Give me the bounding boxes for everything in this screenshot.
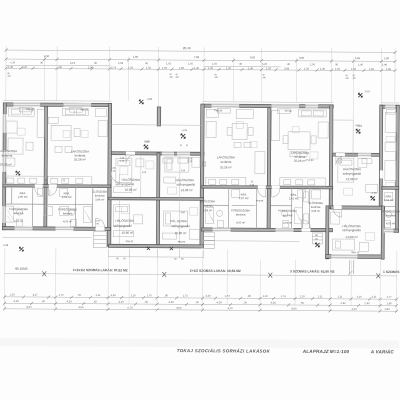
svg-text:1,45: 1,45 bbox=[358, 62, 364, 66]
level mark top mid court bbox=[139, 98, 152, 104]
svg-text:1,20: 1,20 bbox=[202, 162, 207, 164]
svg-text:25,26 m²: 25,26 m² bbox=[220, 165, 232, 169]
svg-text:1,20: 1,20 bbox=[120, 158, 125, 160]
KRA/bath partition A2 bbox=[75, 186, 77, 228]
entry door block B unit3 bbox=[302, 228, 311, 232]
svg-text:4,28: 4,28 bbox=[217, 300, 223, 304]
svg-text:12,98 m²: 12,98 m² bbox=[181, 188, 193, 192]
entry door right court bbox=[336, 153, 345, 156]
svg-text:3,96 m²: 3,96 m² bbox=[203, 208, 212, 212]
svg-text:2,10: 2,10 bbox=[188, 161, 193, 163]
dimension tick slashes top bbox=[4, 49, 396, 72]
svg-text:28,49: 28,49 bbox=[183, 46, 191, 50]
svg-text:szőnyegpadló: szőnyegpadló bbox=[113, 224, 132, 228]
svg-text:25,26 m²: 25,26 m² bbox=[74, 157, 86, 161]
svg-text:1,02: 1,02 bbox=[166, 61, 172, 65]
right wing bedroom furniture bbox=[338, 158, 378, 192]
svg-text:1,40: 1,40 bbox=[248, 66, 254, 70]
svg-text:1,75: 1,75 bbox=[59, 293, 65, 297]
door protrusion bedroom bbox=[334, 206, 342, 209]
svg-text:2,10: 2,10 bbox=[131, 293, 137, 297]
lintel labels above plan bbox=[7, 73, 356, 80]
svg-text:8,06: 8,06 bbox=[176, 306, 182, 310]
svg-text:szőnyegpadló: szőnyegpadló bbox=[171, 224, 190, 228]
bottom wall unit C bbox=[382, 229, 399, 232]
svg-text:kerámia: kerámia bbox=[203, 204, 213, 208]
svg-text:Plan 80: Plan 80 bbox=[80, 109, 89, 111]
bottom wall block A bbox=[3, 227, 111, 231]
bedroom wing split / protrusion top wall bbox=[331, 206, 385, 210]
svg-text:szőnyegpadló: szőnyegpadló bbox=[343, 172, 362, 176]
hall partition B unit3 bbox=[291, 188, 293, 230]
svg-text:4,27: 4,27 bbox=[33, 293, 39, 297]
svg-text:,50: ,50 bbox=[243, 300, 247, 304]
svg-text:2,90 m2: 2,90 m2 bbox=[18, 195, 28, 199]
bottom wall block B bbox=[202, 228, 333, 232]
area chain line bbox=[4, 274, 397, 276]
svg-text:2,11: 2,11 bbox=[372, 295, 377, 299]
svg-text:1,50: 1,50 bbox=[10, 292, 16, 296]
svg-text:4,20: 4,20 bbox=[206, 294, 212, 298]
svg-text:1,90: 1,90 bbox=[382, 63, 388, 67]
svg-text:kerámia: kerámia bbox=[236, 212, 246, 216]
svg-text:8,06: 8,06 bbox=[291, 306, 297, 310]
svg-text:LAKÓSZOBA: LAKÓSZOBA bbox=[217, 154, 235, 159]
svg-text:2,61 m2: 2,61 m2 bbox=[384, 198, 394, 202]
mid/B party wall bbox=[200, 104, 204, 247]
svg-text:R: R bbox=[186, 144, 188, 147]
court right wall upper stub bbox=[157, 107, 161, 126]
svg-text:1,40: 1,40 bbox=[320, 67, 326, 71]
svg-text:2,10: 2,10 bbox=[357, 295, 363, 299]
bath/KRA fixtures B bbox=[206, 189, 321, 228]
svg-text:2,10: 2,10 bbox=[338, 162, 343, 164]
svg-text:kerámia: kerámia bbox=[95, 194, 105, 198]
svg-text:4,29: 4,29 bbox=[14, 299, 20, 303]
svg-text:kerámia: kerámia bbox=[283, 213, 293, 217]
svg-text:4,00 m²: 4,00 m² bbox=[14, 219, 23, 223]
svg-text:HÁLÓSZOBA: HÁLÓSZOBA bbox=[122, 177, 140, 182]
level mark bottom left bbox=[19, 247, 23, 251]
svg-text:PMI 95: PMI 95 bbox=[126, 241, 134, 243]
svg-text:-0,01: -0,01 bbox=[364, 90, 370, 93]
entry steps block A bbox=[93, 232, 106, 248]
interior door A2 bbox=[49, 184, 57, 187]
hall partition A2 bbox=[92, 187, 94, 229]
svg-text:-0,39: -0,39 bbox=[144, 140, 150, 143]
svg-text:2,92: 2,92 bbox=[341, 301, 347, 305]
svg-text:3,90: 3,90 bbox=[111, 293, 117, 297]
svg-text:-4,03: -4,03 bbox=[181, 129, 187, 132]
door mid wing bedroom1 bbox=[111, 171, 115, 179]
svg-text:A VARIÁC: A VARIÁC bbox=[370, 348, 395, 354]
svg-text:1,80: 1,80 bbox=[386, 67, 392, 71]
svg-text:PHI 90: PHI 90 bbox=[306, 160, 314, 162]
svg-text:szőnyegpadló: szőnyegpadló bbox=[116, 182, 135, 186]
svg-text:1,80: 1,80 bbox=[179, 66, 185, 70]
interior door A1 living->hall bbox=[35, 184, 43, 187]
svg-text:2,08: 2,08 bbox=[118, 61, 124, 65]
svg-text:KRA.: KRA. bbox=[241, 192, 248, 196]
top wall block A bbox=[3, 103, 111, 107]
svg-text:8,30: 8,30 bbox=[44, 54, 50, 58]
svg-text:1,40: 1,40 bbox=[8, 65, 14, 69]
bottom dimension ticks bbox=[3, 295, 398, 312]
level mark B court bbox=[356, 125, 363, 134]
svg-text:PHI 90: PHI 90 bbox=[285, 111, 293, 113]
svg-text:szőnyegpadló: szőnyegpadló bbox=[177, 182, 196, 186]
svg-text:kerámia: kerámia bbox=[2, 154, 13, 158]
svg-text:+,26: +,26 bbox=[10, 60, 16, 64]
interior door B2 bbox=[272, 186, 280, 189]
entry steps unit3 bbox=[312, 233, 322, 244]
svg-text:1,50: 1,50 bbox=[226, 66, 232, 70]
svg-text:TOKAJ SZOCIÁLIS SORHÁZI LAKÁSO: TOKAJ SZOCIÁLIS SORHÁZI LAKÁSOK bbox=[177, 348, 271, 354]
svg-text:2,11: 2,11 bbox=[96, 293, 101, 297]
svg-text:48,10M2: 48,10M2 bbox=[15, 267, 28, 271]
svg-text:2,73: 2,73 bbox=[111, 65, 117, 69]
svg-text:HÁLÓSZOBA: HÁLÓSZOBA bbox=[176, 177, 194, 182]
svg-text:kerámia: kerámia bbox=[14, 211, 24, 215]
bedroom mid wing upper-left bed bbox=[114, 159, 144, 193]
level mark left court bbox=[144, 140, 151, 149]
svg-text:3,65: 3,65 bbox=[355, 56, 361, 60]
svg-text:1,20: 1,20 bbox=[188, 158, 193, 160]
svg-text:1,65: 1,65 bbox=[335, 67, 341, 71]
svg-text:2,10: 2,10 bbox=[250, 185, 255, 187]
svg-text:KRA.: KRA. bbox=[291, 193, 298, 197]
svg-text:HÁL.SZOBA: HÁL.SZOBA bbox=[170, 219, 187, 223]
svg-text:1,85: 1,85 bbox=[369, 67, 375, 71]
svg-text:1 SZOBÁS: 1 SZOBÁS bbox=[383, 269, 400, 274]
svg-text:2,10: 2,10 bbox=[44, 183, 49, 185]
extra interior texture bbox=[7, 120, 395, 240]
svg-text:,50: ,50 bbox=[41, 299, 45, 303]
svg-text:2,10: 2,10 bbox=[202, 165, 207, 167]
svg-text:1,50: 1,50 bbox=[188, 61, 194, 65]
bath/KRA fixtures C bbox=[385, 192, 393, 227]
svg-text:1,80: 1,80 bbox=[88, 65, 94, 69]
svg-text:3,60: 3,60 bbox=[299, 56, 305, 60]
svg-text:9,50: 9,50 bbox=[250, 55, 256, 59]
party wall A2/mid bbox=[107, 103, 111, 246]
bedroom mid wing upper-right bed bbox=[164, 157, 200, 183]
bottom dimension labels bbox=[9, 292, 392, 311]
svg-text:M=1:100: M=1:100 bbox=[330, 349, 350, 354]
svg-text:7,98: 7,98 bbox=[194, 55, 200, 59]
svg-text:2+1/2 SZOBÁS LAKÁS: 69,56 M2: 2+1/2 SZOBÁS LAKÁS: 69,56 M2 bbox=[190, 268, 241, 273]
svg-text:R: R bbox=[180, 144, 182, 147]
svg-text:KRA.: KRA. bbox=[386, 194, 393, 198]
overall dimension line bbox=[6, 50, 396, 52]
left outer wall bbox=[3, 103, 7, 230]
svg-text:-4,38: -4,38 bbox=[2, 244, 8, 247]
svg-text:2,61 m2: 2,61 m2 bbox=[289, 196, 299, 200]
svg-text:,50: ,50 bbox=[93, 299, 97, 303]
entry steps block B bbox=[201, 232, 214, 248]
svg-text:HÁLÓSZOBA: HÁLÓSZOBA bbox=[115, 218, 133, 223]
svg-text:1,50: 1,50 bbox=[208, 66, 214, 70]
svg-text:1,73: 1,73 bbox=[183, 294, 189, 298]
recessed wall right wing bbox=[331, 153, 382, 156]
svg-text:4,03 m²: 4,03 m² bbox=[386, 221, 395, 225]
svg-text:kerámia: kerámia bbox=[311, 205, 321, 209]
level mark mid wing south 2 bbox=[170, 247, 173, 250]
svg-text:,50: ,50 bbox=[195, 300, 199, 304]
svg-text:2,61 m2: 2,61 m2 bbox=[62, 195, 72, 199]
svg-text:Blen 16: Blen 16 bbox=[351, 252, 360, 254]
svg-text:3,96 m²: 3,96 m² bbox=[311, 209, 320, 213]
terrace edge south of block B bbox=[202, 240, 299, 243]
protrusion right wall bbox=[381, 206, 384, 259]
level marks bbox=[2, 88, 377, 253]
bath/KRA fixtures A1 bbox=[6, 188, 53, 226]
recessed wall mid wing bbox=[109, 152, 204, 156]
svg-text:2,93: 2,93 bbox=[365, 301, 371, 305]
svg-text:4,23: 4,23 bbox=[351, 307, 357, 311]
svg-text:HÁLÓSZOBA: HÁLÓSZOBA bbox=[343, 166, 361, 171]
svg-text:1,40: 1,40 bbox=[194, 66, 200, 70]
unit C living furniture bbox=[385, 112, 396, 180]
svg-text:2,10: 2,10 bbox=[263, 294, 269, 298]
svg-text:4,20: 4,20 bbox=[22, 65, 28, 69]
interior door B1 bbox=[258, 186, 266, 189]
living A1 furniture bbox=[4, 108, 44, 184]
svg-text:4,00 m²: 4,00 m² bbox=[236, 220, 245, 224]
svg-text:2,10: 2,10 bbox=[120, 161, 125, 163]
terrace edge south of block A bbox=[2, 236, 91, 239]
entry door block A unit2 bbox=[96, 227, 105, 231]
svg-text:1,50: 1,50 bbox=[146, 66, 152, 70]
svg-text:1,20: 1,20 bbox=[111, 168, 116, 170]
svg-text:1,73: 1,73 bbox=[225, 294, 231, 298]
svg-text:kerámia: kerámia bbox=[221, 160, 232, 164]
svg-text:1,50: 1,50 bbox=[310, 62, 316, 66]
svg-text:2,11: 2,11 bbox=[318, 294, 323, 298]
svg-text:PHI 95: PHI 95 bbox=[256, 201, 264, 203]
dimension line row 3 bbox=[5, 68, 395, 70]
svg-text:3,96 m²: 3,96 m² bbox=[95, 198, 104, 202]
svg-text:Plan 80: Plan 80 bbox=[214, 110, 223, 112]
svg-text:1,50: 1,50 bbox=[304, 67, 310, 71]
level mark mid wing south 1 bbox=[147, 247, 150, 250]
svg-text:kerámia: kerámia bbox=[63, 211, 73, 215]
level mark court +4,03 bbox=[181, 129, 188, 138]
svg-text:LAKÓSZOBA: LAKÓSZOBA bbox=[0, 148, 17, 153]
bottom wall mid wing bbox=[108, 244, 203, 248]
svg-text:3,08: 3,08 bbox=[284, 66, 290, 70]
mid wing lower dim line bbox=[108, 249, 203, 259]
svg-text:1,50: 1,50 bbox=[351, 67, 357, 71]
svg-text:1,80: 1,80 bbox=[384, 307, 390, 311]
KRA band top wall block A bbox=[3, 184, 111, 187]
svg-text:2,87 m2: 2,87 m2 bbox=[239, 196, 249, 200]
svg-text:Plan 80: Plan 80 bbox=[26, 109, 35, 111]
svg-text:-4,03: -4,03 bbox=[356, 125, 362, 128]
B right wall bbox=[329, 105, 333, 209]
svg-text:PMI 95: PMI 95 bbox=[178, 242, 186, 244]
svg-text:4,28: 4,28 bbox=[169, 300, 175, 304]
svg-text:12,98 m²: 12,98 m² bbox=[346, 177, 358, 181]
bath/KRA fixtures A2 bbox=[60, 188, 92, 226]
protrusion bedroom furniture bbox=[330, 212, 368, 251]
svg-text:,50: ,50 bbox=[300, 301, 304, 305]
svg-text:2,10: 2,10 bbox=[95, 221, 100, 223]
svg-text:10,80 m²: 10,80 m² bbox=[125, 188, 137, 192]
svg-text:3 SZOBÁS LAKÁS: 62,80 M2: 3 SZOBÁS LAKÁS: 62,80 M2 bbox=[290, 268, 335, 273]
court boundary thin lines bbox=[2, 101, 399, 242]
svg-text:1,60: 1,60 bbox=[133, 55, 139, 59]
svg-text:25,26 m²: 25,26 m² bbox=[0, 163, 12, 167]
top wall block B bbox=[202, 104, 333, 108]
svg-text:2,10: 2,10 bbox=[300, 294, 306, 298]
level mark top right bbox=[358, 90, 370, 97]
top dimension labels bbox=[8, 45, 392, 71]
protrusion left wall bbox=[326, 206, 329, 259]
extension lines down to plan bbox=[6, 46, 395, 124]
party wall A1/A2 bbox=[44, 106, 48, 227]
svg-text:4,20: 4,20 bbox=[227, 306, 233, 310]
bedroom mid wing lower-left bbox=[113, 205, 142, 237]
svg-text:1,73: 1,73 bbox=[281, 294, 287, 298]
svg-text:1,11: 1,11 bbox=[338, 294, 343, 298]
unit C partition bbox=[383, 205, 396, 207]
svg-text:1,90: 1,90 bbox=[384, 56, 390, 60]
bedroom split mid wing bbox=[109, 197, 204, 200]
svg-text:,90: ,90 bbox=[247, 294, 251, 298]
dimension line row 2 bbox=[6, 59, 396, 61]
svg-text:25,26 m²: 25,26 m² bbox=[294, 159, 306, 163]
top wall block C bbox=[380, 105, 399, 108]
party wall B1/B2 bbox=[267, 108, 271, 229]
right court edge bbox=[333, 119, 353, 121]
eaves outline around building top bbox=[3, 100, 111, 103]
living B1 furniture bbox=[206, 109, 265, 185]
protrusion bottom wall bbox=[326, 255, 385, 259]
svg-text:KRA.: KRA. bbox=[20, 191, 27, 195]
level mark right wing bbox=[371, 192, 378, 201]
svg-text:1,50: 1,50 bbox=[128, 65, 134, 69]
mid wing internal wall bbox=[156, 153, 160, 246]
door right wing bedroom bbox=[380, 170, 383, 178]
svg-text:10,80 m²: 10,80 m² bbox=[122, 231, 134, 235]
svg-text:,50: ,50 bbox=[144, 300, 148, 304]
interior thin partitions bbox=[4, 186, 396, 230]
svg-text:ALAPRAJZ: ALAPRAJZ bbox=[302, 349, 329, 354]
svg-text:4,03 m²: 4,03 m² bbox=[63, 219, 72, 223]
svg-text:1,20: 1,20 bbox=[338, 159, 343, 161]
terrace edge mid court bbox=[111, 124, 158, 126]
small dimension texts inside plan bbox=[25, 109, 360, 254]
svg-text:4,29: 4,29 bbox=[67, 299, 73, 303]
svg-text:4,29: 4,29 bbox=[119, 300, 125, 304]
KRA/bath partition A1 bbox=[32, 186, 34, 228]
radiators under court windows bbox=[163, 158, 188, 163]
svg-text:1,80: 1,80 bbox=[387, 301, 393, 305]
svg-text:1+2x1/2 SZOBÁS LAKÁS: 87,52 M: 1+2x1/2 SZOBÁS LAKÁS: 87,52 M2 bbox=[73, 267, 128, 272]
svg-text:8,05: 8,05 bbox=[26, 305, 32, 309]
svg-text:1,50: 1,50 bbox=[212, 62, 218, 66]
level mark living A1 bbox=[16, 171, 20, 175]
svg-text:1,50: 1,50 bbox=[162, 66, 168, 70]
svg-text:4,19: 4,19 bbox=[70, 61, 76, 65]
right wing internal bbox=[379, 105, 383, 209]
svg-text:4,03 m²: 4,03 m² bbox=[283, 221, 292, 225]
svg-text:-10,80 m²: -10,80 m² bbox=[345, 235, 358, 239]
svg-text:8,06: 8,06 bbox=[78, 305, 84, 309]
extension lines up to plan bbox=[5, 248, 397, 312]
svg-text:1,77: 1,77 bbox=[387, 295, 393, 299]
svg-text:6,20: 6,20 bbox=[262, 62, 268, 66]
radiators under top windows bbox=[19, 107, 395, 164]
svg-text:1,73: 1,73 bbox=[147, 293, 153, 297]
right outer wall (cut) bbox=[396, 105, 400, 232]
svg-text:,90: ,90 bbox=[164, 293, 168, 297]
svg-text:,50: ,50 bbox=[77, 293, 81, 297]
svg-text:10,80 m²: 10,80 m² bbox=[175, 231, 187, 235]
entry door mid court unit2 bbox=[126, 152, 135, 155]
bedroom mid wing lower-right bbox=[162, 211, 199, 239]
living A2 furniture bbox=[48, 108, 107, 184]
svg-text:-4,38: -4,38 bbox=[146, 98, 152, 101]
svg-text:-0,39: -0,39 bbox=[371, 192, 377, 195]
svg-text:2,10: 2,10 bbox=[111, 171, 116, 173]
svg-text:6,79: 6,79 bbox=[127, 305, 133, 309]
living B2 furniture bbox=[271, 110, 328, 186]
level mark bottom mid bbox=[315, 243, 319, 247]
svg-text:4,28: 4,28 bbox=[271, 301, 277, 305]
KRA band top wall unit C bbox=[382, 187, 399, 190]
svg-text:KRA.: KRA. bbox=[64, 191, 71, 195]
KRA band top wall block B bbox=[202, 186, 333, 189]
svg-text:szőnyegpadló: szőnyegpadló bbox=[342, 228, 361, 232]
svg-text:1,50: 1,50 bbox=[266, 66, 272, 70]
area chain cross marks bbox=[42, 258, 380, 278]
svg-text:kerámia: kerámia bbox=[386, 213, 396, 217]
